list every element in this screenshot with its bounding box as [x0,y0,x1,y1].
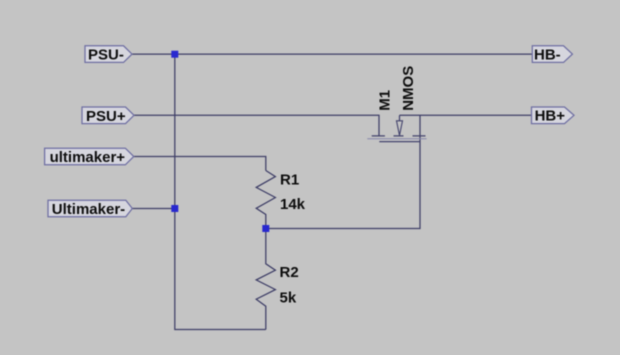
svg-text:14k: 14k [280,196,306,213]
svg-text:R1: R1 [280,172,299,189]
svg-text:Ultimaker-: Ultimaker- [52,201,125,218]
svg-text:NMOS: NMOS [400,66,417,111]
svg-text:PSU-: PSU- [88,47,124,64]
svg-text:HB+: HB+ [535,108,566,125]
svg-text:PSU+: PSU+ [86,108,126,125]
svg-text:ultimaker+: ultimaker+ [50,149,126,166]
svg-text:5k: 5k [280,289,297,306]
svg-text:HB-: HB- [534,46,561,63]
svg-text:M1: M1 [377,90,394,111]
svg-text:R2: R2 [280,264,299,281]
